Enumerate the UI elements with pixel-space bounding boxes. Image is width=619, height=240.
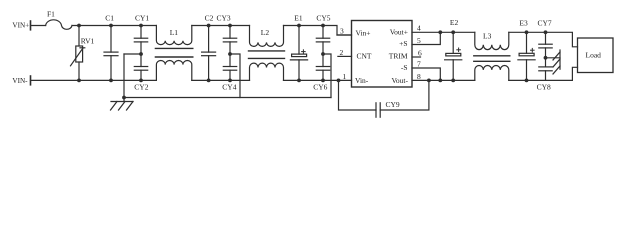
svg-text:1: 1: [343, 72, 347, 81]
wire CY1/CY2 midpoint to earth column: [124, 53, 141, 55]
svg-text:VIN+: VIN+: [12, 22, 29, 30]
capacitor CY3: [223, 26, 236, 55]
svg-text:Vin-: Vin-: [355, 76, 369, 85]
node C1 top: [109, 24, 113, 28]
node C2 bottom: [207, 79, 211, 83]
wire top rail L2 to pin3 corner: [284, 26, 352, 36]
node E1 bottom: [297, 79, 301, 83]
node pin5 riser top: [438, 30, 442, 34]
svg-text:VIN-: VIN-: [12, 77, 28, 85]
electrolytic capacitor E3: [518, 32, 535, 80]
wire CY5/CY6 midpoint to earth bus: [323, 54, 331, 98]
svg-text:CY5: CY5: [316, 14, 330, 23]
svg-text:3: 3: [340, 27, 344, 36]
svg-text:+S: +S: [399, 39, 407, 48]
node E2 top: [451, 30, 455, 34]
node CY3/CY4 mid: [228, 52, 232, 56]
capacitor C1: [104, 26, 118, 81]
inductor L3 top winding: [475, 32, 509, 49]
svg-text:CNT: CNT: [357, 52, 372, 61]
varistor RV1: [71, 26, 85, 81]
inductor L2 core: [249, 50, 285, 52]
svg-text:C2: C2: [205, 14, 214, 23]
op-amp U1 converter box: [352, 21, 413, 88]
svg-text:TRIM: TRIM: [389, 52, 408, 61]
wire earth column: [123, 54, 125, 102]
svg-text:CY9: CY9: [386, 100, 400, 109]
svg-text:CY2: CY2: [134, 82, 148, 91]
inductor L3 core: [474, 55, 510, 57]
capacitor CY8: [539, 58, 552, 81]
svg-text:RV1: RV1: [81, 36, 95, 45]
svg-text:Vout+: Vout+: [390, 28, 408, 37]
wire VIN+ to fuse: [31, 25, 46, 27]
wire top rail L1 to L2: [192, 25, 250, 27]
wire bottom rail L1 to L2: [192, 79, 250, 81]
pin 6 stub TRIM: [412, 56, 421, 58]
svg-text:CY7: CY7: [538, 18, 552, 27]
svg-text:CY8: CY8: [537, 83, 551, 92]
junction dots: [77, 24, 547, 100]
inductor L2 top winding: [250, 26, 284, 47]
capacitor CY7: [539, 32, 552, 58]
svg-text:L1: L1: [170, 28, 179, 37]
svg-text:5: 5: [417, 36, 421, 45]
node CY5/CY6 mid: [321, 52, 325, 56]
svg-text:E1: E1: [294, 14, 303, 23]
wire VIN- rail: [31, 79, 157, 81]
node pin1 junction: [337, 79, 341, 83]
svg-text:6: 6: [418, 49, 422, 58]
node CY9 riser: [427, 79, 431, 83]
capacitor CY9: [339, 80, 429, 117]
node VIN- terminal: [30, 76, 32, 85]
pin 2 stub: [338, 55, 352, 57]
node CY3 top: [228, 24, 232, 28]
node pin7 drop: [438, 79, 442, 83]
capacitor CY5: [316, 26, 329, 55]
svg-text:-S: -S: [401, 63, 408, 72]
node VIN+ terminal: [30, 21, 32, 30]
svg-text:Load: Load: [586, 51, 602, 60]
node RV1 top: [77, 24, 81, 28]
svg-text:C1: C1: [105, 14, 114, 23]
node CY2 bottom: [139, 79, 143, 83]
node CY7/CY8 mid: [544, 56, 548, 60]
node E3 top: [525, 30, 529, 34]
node RV1 bottom: [77, 79, 81, 83]
capacitor CY6: [316, 54, 329, 80]
fuse F1: [46, 20, 72, 29]
svg-text:L2: L2: [261, 28, 270, 37]
wire fuse to RV1 node: [72, 25, 156, 27]
inductor L2 bottom winding: [250, 63, 284, 80]
pin 7 wire -S: [412, 68, 440, 80]
pin 8 wire Vout- rail: [412, 79, 475, 81]
wire earth bus: [124, 97, 331, 99]
svg-text:CY6: CY6: [313, 83, 327, 92]
pin 4 wire Vout+ rail: [412, 31, 475, 33]
node CY1 top: [139, 24, 143, 28]
node E2 bottom: [451, 79, 455, 83]
node C1 bottom: [109, 79, 113, 83]
svg-text:E3: E3: [519, 18, 528, 27]
node E1 top: [297, 24, 301, 28]
svg-text:Vin+: Vin+: [356, 28, 371, 37]
wire output top rail L3 to load: [509, 32, 578, 47]
node CY5 top: [321, 24, 325, 28]
svg-text:E2: E2: [450, 18, 459, 27]
inductor L1 bottom winding: [156, 60, 191, 80]
node C2 top: [207, 24, 211, 28]
node CY1/CY2 mid: [139, 52, 143, 56]
inductor L3 bottom winding: [475, 66, 509, 81]
node CY4 bottom: [228, 79, 232, 83]
svg-text:2: 2: [340, 48, 344, 57]
inductor L1 top winding: [156, 26, 191, 45]
inductor L1 core: [155, 47, 192, 49]
svg-text:F1: F1: [47, 10, 55, 19]
capacitor CY4: [223, 54, 236, 80]
ground chassis symbol: [111, 102, 134, 111]
svg-text:CY1: CY1: [135, 14, 149, 23]
svg-text:Vout-: Vout-: [391, 76, 408, 85]
capacitor CY2: [134, 54, 147, 80]
wire output bottom rail L3 to load: [509, 67, 578, 80]
electrolytic capacitor E2: [445, 32, 462, 80]
svg-text:L3: L3: [483, 32, 492, 41]
node E3 bottom: [525, 79, 529, 83]
pin 5 wire +S: [412, 32, 440, 44]
node CY6 bottom: [321, 79, 325, 83]
svg-text:4: 4: [417, 24, 421, 33]
svg-text:7: 7: [417, 60, 421, 69]
wire bottom rail L2 to IC pin1: [284, 79, 352, 81]
wire CY3/CY4 midpoint to earth bus: [230, 54, 240, 98]
svg-text:8: 8: [417, 72, 421, 81]
node CY7 top: [544, 30, 548, 34]
ground chassis symbol right: [553, 50, 560, 74]
node earth bus left: [122, 96, 126, 100]
capacitor CY1: [134, 26, 147, 55]
capacitor C2: [202, 26, 216, 81]
pin 3 stub: [337, 34, 352, 36]
Load box: [578, 38, 614, 73]
svg-text:CY4: CY4: [222, 82, 236, 91]
svg-text:CY3: CY3: [217, 14, 231, 23]
wire CY7/CY8 midpoint to chassis: [546, 57, 561, 59]
electrolytic capacitor E1: [290, 26, 307, 81]
